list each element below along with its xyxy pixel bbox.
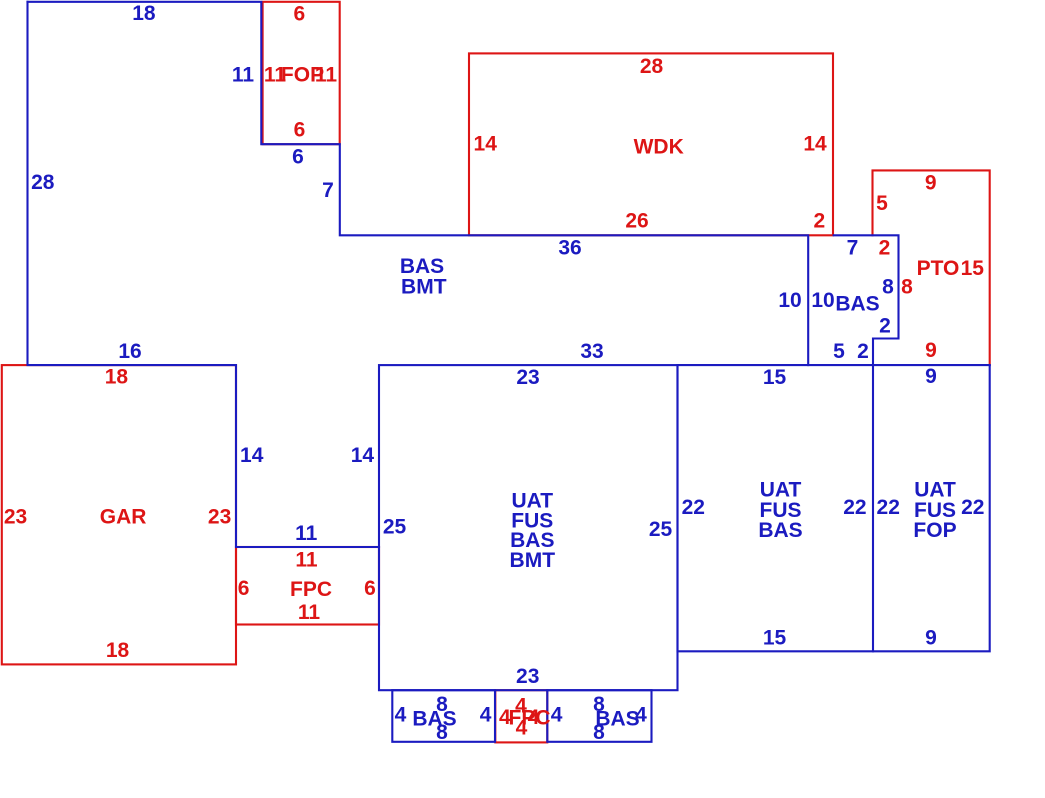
svg-text:23: 23 <box>516 366 539 389</box>
svg-text:BAS: BAS <box>412 708 456 731</box>
svg-text:2: 2 <box>879 315 891 338</box>
svg-text:BMT: BMT <box>401 276 447 299</box>
svg-text:22: 22 <box>843 496 866 519</box>
svg-text:6: 6 <box>294 2 306 25</box>
svg-text:15: 15 <box>763 366 787 389</box>
svg-text:8: 8 <box>436 721 448 744</box>
svg-text:4: 4 <box>528 706 540 729</box>
svg-text:4: 4 <box>635 704 647 727</box>
svg-text:25: 25 <box>383 516 407 539</box>
svg-text:11: 11 <box>295 549 318 572</box>
svg-text:PTO: PTO <box>917 257 960 280</box>
room BAS (bottom-right small) outline <box>547 690 651 742</box>
svg-text:6: 6 <box>292 146 304 169</box>
svg-text:7: 7 <box>322 179 334 202</box>
svg-text:BAS: BAS <box>758 519 802 542</box>
room FPC (lower porch) outline <box>495 690 547 742</box>
svg-text:7: 7 <box>847 237 859 260</box>
svg-text:26: 26 <box>625 210 648 233</box>
svg-text:14: 14 <box>474 133 498 156</box>
svg-text:9: 9 <box>925 627 937 650</box>
room UAT/FUS/BAS/BMT main box <box>379 365 678 690</box>
room UAT/FUS/BAS middle + UAT/FUS/FOP right boxes <box>678 365 990 651</box>
svg-text:14: 14 <box>351 444 375 467</box>
svg-text:23: 23 <box>516 665 539 688</box>
svg-text:2: 2 <box>857 340 869 363</box>
svg-text:22: 22 <box>877 496 900 519</box>
svg-text:18: 18 <box>106 639 130 662</box>
svg-text:16: 16 <box>118 340 141 363</box>
room BAS (bottom-left small) outline <box>392 690 495 742</box>
svg-text:22: 22 <box>961 496 984 519</box>
svg-text:9: 9 <box>925 365 937 388</box>
svg-text:23: 23 <box>208 506 231 529</box>
svg-text:28: 28 <box>640 55 664 78</box>
svg-text:BAS: BAS <box>835 293 879 316</box>
svg-text:25: 25 <box>649 518 673 541</box>
svg-text:FOP: FOP <box>913 519 956 542</box>
svg-text:11: 11 <box>315 64 338 87</box>
svg-text:23: 23 <box>4 506 27 529</box>
svg-text:FPC: FPC <box>290 578 332 601</box>
svg-text:33: 33 <box>580 340 603 363</box>
svg-text:2: 2 <box>813 210 825 233</box>
svg-text:5: 5 <box>876 192 888 215</box>
wall top band y=365 right part <box>678 364 990 366</box>
room PTO outline (top, right, upper-left segments) <box>873 170 990 365</box>
svg-text:14: 14 <box>240 444 264 467</box>
wall between middle and right box <box>872 365 874 651</box>
svg-text:WDK: WDK <box>634 136 684 159</box>
svg-text:6: 6 <box>238 577 250 600</box>
room FPC (covered porch by garage) outline <box>236 547 379 625</box>
svg-text:8: 8 <box>593 721 605 744</box>
svg-text:8: 8 <box>436 693 448 716</box>
svg-text:36: 36 <box>558 237 581 260</box>
svg-text:6: 6 <box>294 119 306 142</box>
svg-text:BMT: BMT <box>510 549 556 572</box>
svg-text:11: 11 <box>298 601 321 624</box>
wall main outline top with FOP step and 7 step <box>28 2 809 365</box>
room GAR (garage) outline <box>2 365 236 664</box>
svg-text:6: 6 <box>364 577 376 600</box>
svg-text:9: 9 <box>925 339 937 362</box>
svg-text:11: 11 <box>295 522 318 545</box>
svg-text:22: 22 <box>682 496 705 519</box>
svg-text:2: 2 <box>879 237 891 260</box>
room BAS (upper small basement) outline <box>834 235 899 365</box>
svg-text:4: 4 <box>480 704 492 727</box>
room WDK (wood deck) outline <box>469 53 833 235</box>
svg-text:4: 4 <box>395 704 407 727</box>
svg-text:4: 4 <box>516 717 528 740</box>
svg-text:28: 28 <box>31 171 55 194</box>
svg-text:14: 14 <box>803 133 827 156</box>
svg-text:8: 8 <box>882 276 894 299</box>
svg-text:9: 9 <box>925 172 937 195</box>
svg-text:4: 4 <box>551 704 563 727</box>
wall main outline left side and garage recess <box>28 2 380 547</box>
svg-text:18: 18 <box>105 366 129 389</box>
svg-text:15: 15 <box>763 627 787 650</box>
svg-text:18: 18 <box>132 2 156 25</box>
svg-text:11: 11 <box>232 64 255 87</box>
svg-text:10: 10 <box>778 289 801 312</box>
svg-text:10: 10 <box>811 289 834 312</box>
svg-text:5: 5 <box>833 340 845 363</box>
svg-text:15: 15 <box>961 257 985 280</box>
svg-text:GAR: GAR <box>100 506 147 529</box>
room FOP (upper porch) outline <box>263 2 340 144</box>
svg-text:8: 8 <box>901 276 913 299</box>
